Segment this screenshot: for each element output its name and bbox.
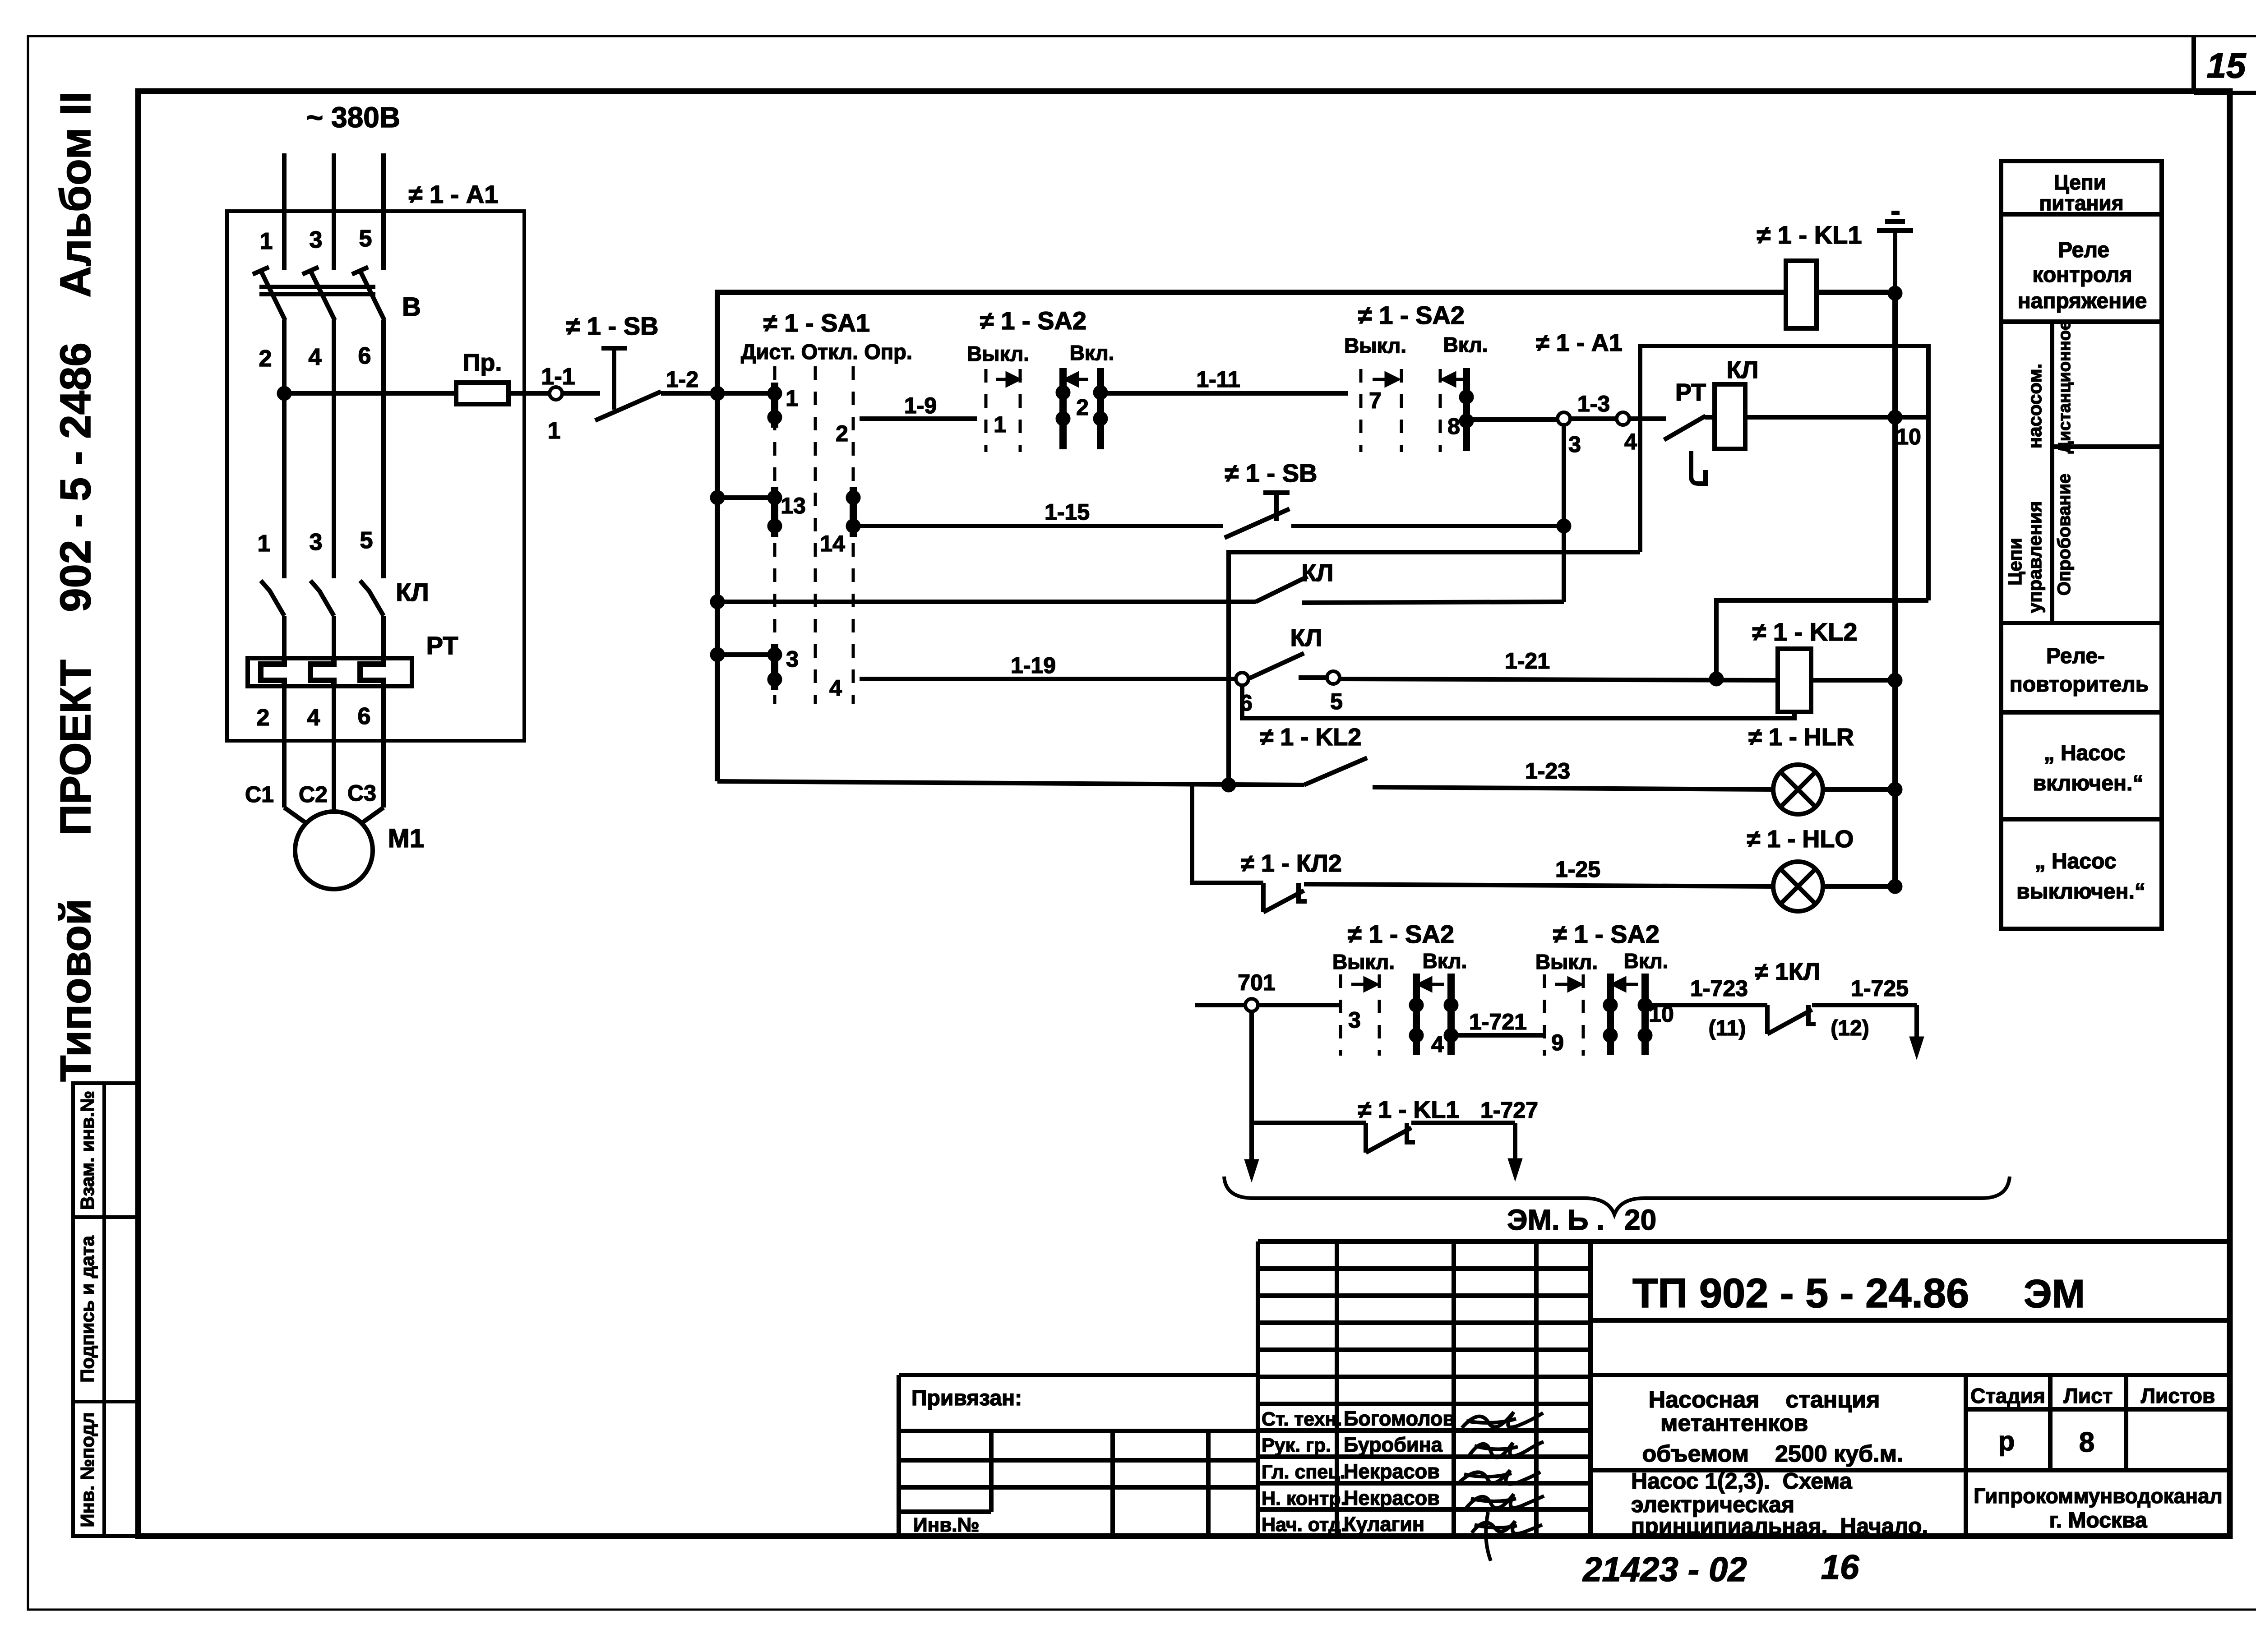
SA2 g1 vkl arrow (1066, 374, 1088, 385)
left margin vertical text Album II (51, 91, 100, 297)
svg-text:ЭМ. Ь .: ЭМ. Ь . (1507, 1204, 1604, 1236)
contactor aux contact KL label (1302, 559, 1334, 586)
svg-text:5: 5 (359, 226, 372, 252)
svg-text:3: 3 (310, 529, 323, 555)
svg-text:≠ 1 - KL1: ≠ 1 - KL1 (1358, 1096, 1460, 1123)
wire blade to terminal 5 (1299, 675, 1327, 680)
svg-text:1-21: 1-21 (1505, 648, 1550, 674)
wire lamp HLO to bus (1823, 884, 1895, 889)
svg-text:(12): (12) (1831, 1016, 1869, 1040)
relay KL1 label (1757, 221, 1862, 249)
svg-text:701: 701 (1238, 970, 1275, 995)
contactor aux contact KL2row label (1290, 624, 1322, 651)
relay KL2 label (1752, 618, 1858, 646)
svg-text:Выкл.: Выкл. (1332, 950, 1395, 974)
svg-text:Н. контр.: Н. контр. (1262, 1488, 1346, 1509)
svg-text:Альбом II: Альбом II (51, 91, 100, 297)
switch SA2 group9 label (1553, 920, 1660, 948)
wire terminal4 to RT contact (1629, 416, 1666, 421)
title block stadiya list listov header (1970, 1384, 2215, 1407)
svg-text:1-23: 1-23 (1525, 758, 1570, 784)
motor lead labels C1 C2 C3 (245, 780, 376, 807)
svg-text:РТ: РТ (426, 631, 458, 660)
terminal 4 (1617, 412, 1629, 425)
svg-text:Листов: Листов (2141, 1384, 2215, 1407)
svg-text:5: 5 (1330, 689, 1343, 714)
node bus feed (710, 386, 725, 401)
svg-text:≠ 1 - HLO: ≠ 1 - HLO (1747, 826, 1854, 853)
lamp HLR (1773, 765, 1823, 814)
label Vzam inv No (77, 1091, 98, 1210)
table cell Rele kontrolya napryazhenie (2018, 238, 2147, 313)
arrow down 1-727 (1508, 1158, 1522, 1181)
title block sheet name (1631, 1468, 1928, 1539)
wire SA2 to terminal 3 (1472, 417, 1558, 422)
svg-text:≠ 1 - SA2: ≠ 1 - SA2 (980, 306, 1086, 335)
SA2 g3 vykl dashed lines (1341, 974, 1379, 1056)
wire RT to coil KL (1705, 415, 1715, 420)
SA2 g2 vkl bar (1463, 368, 1470, 451)
svg-text:Пр.: Пр. (463, 349, 502, 376)
title block doc number (1632, 1270, 1969, 1316)
breaker B (253, 267, 384, 320)
brace to sheet 20 (1224, 1177, 2010, 1214)
wire 1-25 (1304, 884, 1773, 886)
node link on wire 1-15 (1557, 519, 1571, 533)
wire coil KL2 to bus (1811, 678, 1895, 683)
terminal 5 (1327, 671, 1340, 684)
SA2 g2 vkl bar dots (1459, 390, 1474, 428)
svg-text:(11): (11) (1709, 1016, 1746, 1040)
svg-text:Выкл.: Выкл. (1344, 334, 1406, 357)
svg-text:4: 4 (1431, 1032, 1444, 1057)
svg-text:1-723: 1-723 (1690, 976, 1748, 1001)
wire 1-727 label (1480, 1098, 1538, 1123)
wire 1-3 label (1577, 391, 1610, 416)
SA2 g4 vkl bars (1416, 974, 1451, 1055)
SA2 g2 pin8 label (1447, 414, 1460, 439)
title block signatures scribbles (1460, 1412, 1544, 1561)
lamp HLO (1773, 862, 1823, 911)
svg-text:Реле: Реле (2058, 238, 2109, 262)
node KL2 lamp branch (1221, 778, 1236, 792)
svg-text:ПРОЕКТ: ПРОЕКТ (51, 660, 100, 835)
svg-text:Цепи: Цепи (2004, 538, 2025, 586)
svg-text:Буробина: Буробина (1344, 1433, 1443, 1456)
switch SA1 position labels (741, 340, 912, 364)
table cell Rele-povtoritel (2010, 644, 2149, 697)
wire 1-23 (1373, 787, 1773, 789)
supply label ~380V (306, 101, 400, 134)
svg-text:КЛ: КЛ (1290, 624, 1322, 651)
svg-text:Ст. техн.: Ст. техн. (1262, 1408, 1342, 1430)
loop wire to coil KL2 input (1716, 600, 1928, 679)
contactor KL terminals 1 3 5 (258, 527, 373, 557)
svg-text:КЛ: КЛ (396, 578, 429, 606)
SA2 g1 pin2 label (1076, 395, 1089, 420)
node coil KL bus (1888, 410, 1902, 425)
handwritten doc code 21423-02 (1582, 1550, 1747, 1589)
wire coil KL to bus (1745, 415, 1928, 420)
svg-text:Инв.№: Инв.№ (913, 1514, 980, 1536)
svg-text:≠ 1 - KL1: ≠ 1 - KL1 (1757, 221, 1862, 249)
thermal relay RT heaters (261, 660, 384, 685)
SA2 g10 bar dots (1603, 998, 1652, 1043)
svg-text:1-25: 1-25 (1555, 857, 1600, 882)
svg-text:3: 3 (786, 646, 799, 672)
privyazan label (911, 1386, 1022, 1410)
terminal 1 pin label (548, 418, 561, 444)
svg-text:7: 7 (1369, 388, 1382, 413)
holding wire to link (1302, 602, 1564, 603)
SA2 group2 position labels (1344, 333, 1488, 357)
wire 701 (1195, 1003, 1341, 1007)
svg-text:Взам. инв.№: Взам. инв.№ (77, 1091, 98, 1210)
svg-text:1-2: 1-2 (666, 367, 698, 392)
svg-text:Насос 1(2,3). Схема: Насос 1(2,3). Схема (1631, 1468, 1853, 1494)
branch to row 1-25 (1192, 784, 1263, 883)
svg-text:управления: управления (2024, 501, 2045, 613)
contactor KL label (396, 578, 429, 606)
svg-text:1: 1 (786, 386, 798, 411)
SA2 g2 pin7 label (1369, 388, 1382, 413)
table cell Tsepi upravleniya nasosom (rotated) (2004, 364, 2045, 613)
wire 1-723 (1651, 1003, 1767, 1007)
pin 11 label (1709, 1016, 1746, 1040)
contactor coil KL label (1727, 356, 1759, 383)
relay NC contact KL2 row 1-25 (1263, 883, 1307, 912)
svg-text:Гл. спец.: Гл. спец. (1262, 1461, 1345, 1483)
wire 1-19 label (1011, 653, 1056, 678)
svg-text:Богомолов: Богомолов (1344, 1407, 1455, 1430)
SA2 g2 vkl arrow (1443, 374, 1465, 385)
SA1 pin 13 label (781, 493, 806, 518)
svg-text:21423 - 02: 21423 - 02 (1582, 1550, 1747, 1589)
svg-text:8: 8 (2079, 1427, 2094, 1458)
SA1 pin 14 label (820, 531, 845, 556)
svg-text:Рук. гр.: Рук. гр. (1262, 1435, 1331, 1456)
cabinet A1 label (409, 180, 499, 208)
arrow down 1-725 (1909, 1037, 1924, 1059)
contactor aux contact KL blade (1256, 577, 1308, 602)
svg-text:Вкл.: Вкл. (1070, 341, 1114, 365)
wire 1-21 label (1505, 648, 1550, 674)
top rail right part (1817, 290, 1895, 295)
A1 loop left wire (1229, 552, 1640, 785)
svg-text:Некрасов: Некрасов (1344, 1486, 1440, 1509)
SA2 g3 vykl arrow (1351, 978, 1377, 990)
wire 1-25 label (1555, 857, 1600, 882)
title block organization (1974, 1484, 2223, 1532)
table cell Nasos vklyuchen (2033, 741, 2144, 795)
cabinet A1 box (227, 211, 524, 741)
SA2 g1 vykl dashed lines (986, 369, 1020, 452)
svg-text:3: 3 (1568, 432, 1581, 457)
svg-text:Вкл.: Вкл. (1443, 333, 1488, 356)
svg-text:2: 2 (257, 705, 270, 731)
svg-text:1: 1 (260, 228, 273, 254)
wire 1-727 drop (1513, 1123, 1517, 1168)
phase wires middle (284, 320, 384, 578)
SA1 contact 3-4 bar (771, 644, 778, 690)
svg-text:принципиальная. Начало.: принципиальная. Начало. (1631, 1514, 1928, 1539)
SA1 pin 2 label (836, 421, 848, 446)
svg-text:питания: питания (2039, 191, 2123, 215)
sheet number box 15 (2194, 36, 2256, 93)
SA1 contact 14 dots (846, 490, 860, 533)
terminal 1-1 (550, 387, 562, 400)
terminal 6 pin label (1240, 690, 1253, 715)
svg-text:Нач. отд.: Нач. отд. (1262, 1514, 1346, 1536)
label Inv No podl (77, 1412, 98, 1527)
svg-text:объемом 2500 куб.м.: объемом 2500 куб.м. (1642, 1441, 1903, 1467)
svg-text:4: 4 (309, 344, 322, 370)
vertical branch from 701 (1249, 1011, 1254, 1169)
phase wires to motor (284, 686, 384, 823)
lamp HLO label (1747, 826, 1854, 853)
svg-text:2: 2 (836, 421, 848, 446)
pushbutton SB2 (1225, 493, 1290, 538)
svg-text:1: 1 (258, 531, 271, 557)
relay contact KL2 blade row 1-23 (1304, 758, 1367, 785)
svg-text:Выкл.: Выкл. (967, 342, 1029, 365)
wire 1-21 (1339, 679, 1778, 680)
wire terminal1-1 to SB1 (562, 391, 600, 396)
SA1 contact 13 dots (767, 490, 782, 533)
SA2 g10 vkl bars (1610, 974, 1645, 1055)
svg-text:Кулагин: Кулагин (1344, 1513, 1424, 1536)
switch SA1 position line Otkl (814, 366, 817, 704)
SA1 contact 3-4 dots (767, 647, 782, 687)
SA2 g4 pin4 label (1431, 1032, 1444, 1057)
motor M1 label (388, 824, 425, 853)
terminal 6 (1236, 673, 1248, 685)
node top rail to ground (1888, 286, 1902, 300)
thermal contact RT label (1675, 379, 1706, 406)
svg-text:≠ 1 - SB: ≠ 1 - SB (1225, 459, 1318, 487)
SA2 g4 bar dots (1409, 998, 1458, 1043)
wire to fuse (284, 391, 456, 396)
svg-text:РТ: РТ (1675, 379, 1706, 406)
fuse Pr (456, 383, 509, 404)
right function table (2001, 161, 2162, 929)
svg-text:Инв. №подл: Инв. №подл (77, 1412, 98, 1527)
link terminal3 down (1562, 425, 1566, 602)
svg-text:1-9: 1-9 (904, 393, 937, 418)
pushbutton SB2 label (1225, 459, 1318, 487)
SA2 g3 pin3 label (1348, 1007, 1361, 1033)
svg-text:Дистанционное: Дистанционное (2055, 321, 2074, 453)
node SA1 row13 (710, 490, 725, 505)
SA1 pin 3 label (786, 646, 799, 672)
wire 1-721 label (1469, 1009, 1527, 1034)
terminal 1-1 label (541, 364, 575, 390)
SA2 g4 vkl arrow (1419, 978, 1444, 990)
node fuse tap junction (277, 386, 291, 401)
SA2 g9 pin9 label (1551, 1030, 1564, 1055)
title block grid (1258, 1241, 2230, 1536)
pushbutton SB1 label (566, 312, 659, 340)
SA1 pin 4 label (829, 675, 842, 701)
svg-text:5: 5 (360, 527, 373, 554)
wire 1-23 label (1525, 758, 1570, 784)
relay contact KL2 label row 1-25 (1241, 850, 1342, 877)
svg-text:9: 9 (1551, 1030, 1564, 1055)
left bus rail (717, 292, 1786, 781)
thermal NC contact RT (1664, 416, 1706, 484)
svg-text:16: 16 (1821, 1548, 1859, 1587)
svg-text:С3: С3 (347, 780, 376, 806)
SA1 contact 1-2 dots (767, 386, 782, 425)
svg-text:„ Насос: „ Насос (2044, 741, 2126, 765)
thermal relay RT box (248, 658, 412, 686)
SA2 group3 position labels (1332, 949, 1467, 974)
sheet number 15 text (2207, 46, 2247, 85)
terminal on wire 701 (1245, 999, 1258, 1011)
right neutral bus (1892, 293, 1898, 887)
svg-text:С2: С2 (299, 782, 328, 807)
svg-text:4: 4 (829, 675, 842, 701)
node lamp HLR bus (1888, 782, 1902, 797)
svg-text:ТП 902 - 5 - 24.86: ТП 902 - 5 - 24.86 (1632, 1270, 1969, 1316)
svg-text:С1: С1 (245, 782, 274, 807)
svg-text:≠ 1КЛ: ≠ 1КЛ (1755, 958, 1821, 985)
svg-text:≠ 1 - SA2: ≠ 1 - SA2 (1358, 301, 1465, 329)
switch SA2 group1 label (980, 306, 1086, 335)
arrow down 701 branch (1244, 1159, 1259, 1182)
svg-text:Цепи: Цепи (2054, 171, 2106, 194)
SA2 g1 vkl bars (1063, 368, 1100, 449)
left archival boxes column (73, 1083, 138, 1536)
svg-text:г. Москва: г. Москва (2049, 1509, 2147, 1532)
svg-text:1: 1 (994, 412, 1006, 437)
svg-text:3: 3 (1348, 1007, 1361, 1033)
SA2 group9 position labels (1535, 949, 1668, 974)
node lamp HLO bus (1888, 879, 1902, 894)
label Podpis i data (77, 1236, 98, 1383)
svg-text:Типовой: Типовой (51, 899, 100, 1082)
pin 12 label (1831, 1016, 1869, 1040)
phase wires to thermal relay (284, 616, 384, 662)
svg-text:4: 4 (1624, 429, 1637, 454)
svg-text:Вкл.: Вкл. (1423, 949, 1467, 973)
svg-text:1-15: 1-15 (1045, 499, 1090, 525)
svg-text:~ 380В: ~ 380В (306, 101, 400, 134)
wire 1-23 row from bus (717, 781, 1304, 785)
svg-text:6: 6 (358, 343, 371, 369)
switch SA1 label (763, 309, 870, 337)
svg-text:1-11: 1-11 (1196, 367, 1240, 392)
wire 1-725 (1812, 1003, 1917, 1007)
SA2 g1 pin1 label (994, 412, 1006, 437)
svg-text:Вкл.: Вкл. (1624, 949, 1669, 973)
svg-text:13: 13 (781, 493, 806, 518)
thermal relay terminals 2 4 6 (257, 703, 371, 731)
privyazan box (899, 1375, 1258, 1536)
wire 1-727 (1411, 1121, 1515, 1125)
svg-text:„ Насос: „ Насос (2035, 849, 2117, 873)
svg-text:Стадия: Стадия (1970, 1384, 2045, 1407)
relay coil KL1 (1786, 261, 1817, 328)
svg-text:≠ 1 - SA1: ≠ 1 - SA1 (763, 309, 870, 337)
terminal 3 pin label (1568, 432, 1581, 457)
title block stadiya value p (1998, 1426, 2015, 1456)
handwritten sheet code 16 (1821, 1548, 1859, 1587)
fuse label Pr (463, 349, 502, 376)
svg-text:Некрасов: Некрасов (1344, 1460, 1440, 1483)
title block signature names (1344, 1407, 1455, 1536)
svg-text:ЭМ: ЭМ (2024, 1271, 2085, 1316)
svg-text:1-721: 1-721 (1469, 1009, 1527, 1034)
svg-text:1-727: 1-727 (1480, 1098, 1538, 1123)
node SA1 row3 (710, 647, 725, 662)
svg-text:≠ 1 - KL2: ≠ 1 - KL2 (1752, 618, 1858, 646)
title block object name (1642, 1387, 1903, 1467)
SA1 contact 14 bar (850, 487, 857, 537)
wire 1-3 (1570, 416, 1617, 421)
svg-text:В: В (402, 292, 421, 322)
svg-text:≠ 1 - SA2: ≠ 1 - SA2 (1348, 920, 1454, 948)
wire 1-11 (1107, 391, 1348, 396)
wire 1-721 (1457, 1033, 1544, 1038)
svg-text:Насосная станция: Насосная станция (1649, 1387, 1880, 1413)
svg-text:КЛ: КЛ (1302, 559, 1334, 586)
svg-text:включен.“: включен.“ (2033, 771, 2144, 795)
svg-text:Гипрокоммунводоканал: Гипрокоммунводоканал (1974, 1484, 2223, 1508)
A1 loop label (1536, 329, 1623, 356)
svg-text:КЛ: КЛ (1727, 356, 1759, 383)
left margin vertical text Tipovoy (51, 899, 100, 1082)
title block EM mark (2024, 1271, 2085, 1316)
terminal 5 pin label (1330, 689, 1343, 714)
SA2 g9 vykl dashed lines (1544, 974, 1583, 1056)
lamp HLR label (1748, 724, 1854, 751)
svg-text:метантенков: метантенков (1660, 1410, 1808, 1436)
svg-text:≠ 1 - А1: ≠ 1 - А1 (409, 180, 499, 208)
wire 1-2 label (666, 367, 698, 392)
SA2 g2 vkl dashed line (1439, 369, 1442, 452)
wire 1-725 drop (1914, 1005, 1919, 1047)
terminal 4 pin label (1624, 429, 1637, 454)
wire 1-11 label (1196, 367, 1240, 392)
coil KL2 bottom return wire (1242, 685, 1794, 718)
svg-text:4: 4 (307, 705, 320, 731)
SA1 contact 1-2 bar (771, 383, 778, 428)
svg-text:1-1: 1-1 (541, 364, 575, 390)
svg-text:р: р (1998, 1426, 2015, 1456)
svg-text:контроля: контроля (2032, 263, 2132, 287)
left margin vertical text PROEKT (51, 660, 100, 835)
svg-text:выключен.“: выключен.“ (2016, 880, 2145, 904)
svg-text:20: 20 (1624, 1204, 1656, 1236)
relay coil KL2 (1778, 649, 1811, 712)
wire fuse to terminal 1-1 (509, 391, 550, 396)
svg-text:15: 15 (2207, 46, 2247, 85)
terminal 3 (1558, 412, 1570, 425)
pushbutton SB1 (595, 348, 661, 420)
relay contact KL1 label lower (1358, 1096, 1460, 1123)
table cell Nasos vyklyuchen (2016, 849, 2145, 904)
svg-text:≠ 1 - SB: ≠ 1 - SB (566, 312, 659, 340)
left margin vertical text 902-5-2486 (51, 342, 100, 612)
SA2 g1 vkl bar dots (1056, 385, 1108, 426)
svg-text:Опробование: Опробование (2054, 474, 2074, 596)
svg-text:10: 10 (1896, 424, 1921, 449)
svg-text:≠ 1 - А1: ≠ 1 - А1 (1536, 329, 1623, 356)
SA2 g9 vykl arrow (1555, 978, 1581, 990)
SA2 g2 vykl arrow (1373, 374, 1399, 385)
svg-text:1: 1 (548, 418, 561, 444)
